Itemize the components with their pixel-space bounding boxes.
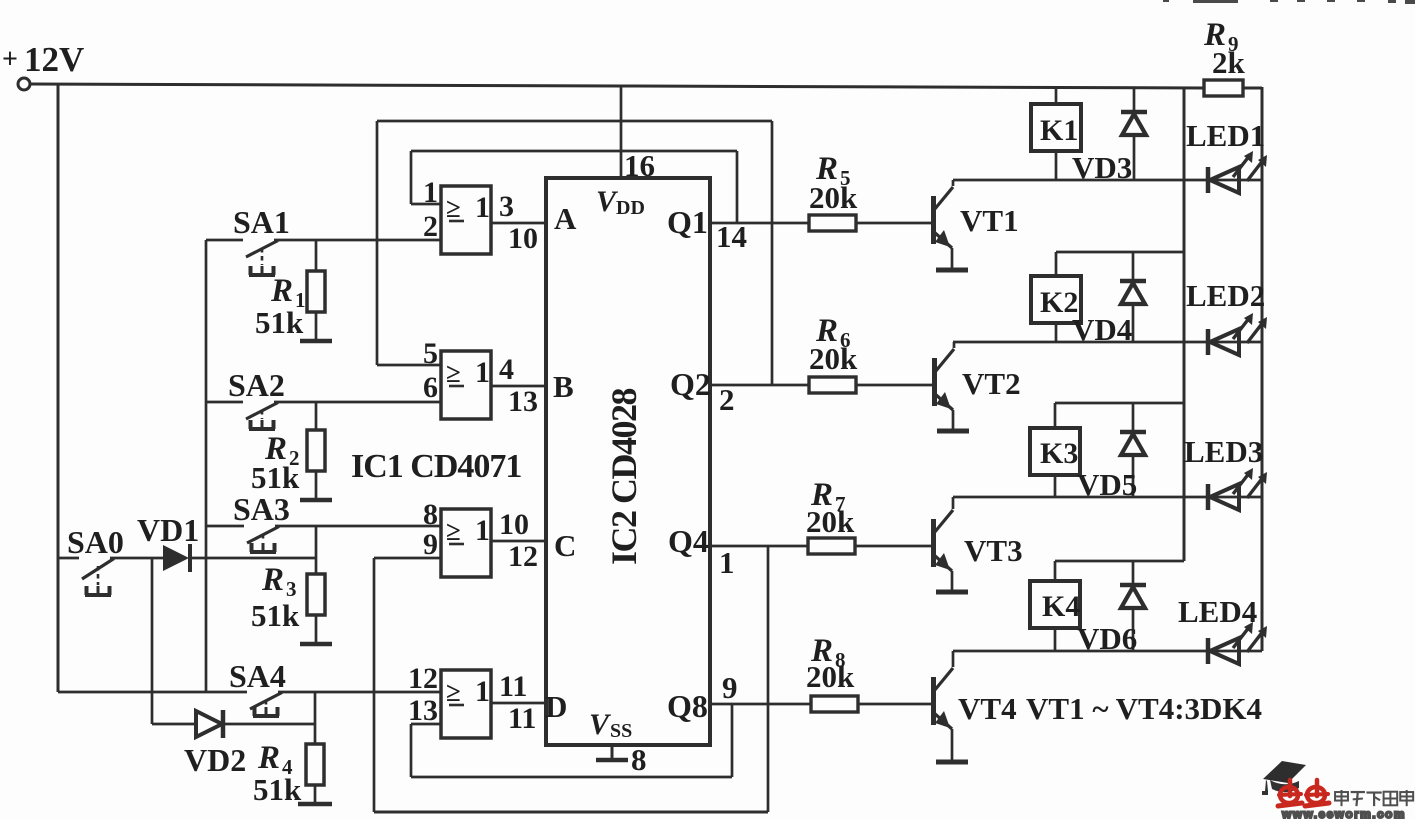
svg-text:VD1: VD1: [137, 512, 199, 548]
svg-text:SS: SS: [610, 720, 632, 742]
svg-text:20k: 20k: [809, 341, 858, 376]
svg-text:1: 1: [475, 514, 490, 547]
svg-text:SA1: SA1: [233, 204, 290, 240]
svg-text:20k: 20k: [806, 504, 855, 539]
svg-text:11: 11: [499, 670, 527, 703]
svg-text:10: 10: [499, 508, 529, 541]
svg-text:5: 5: [423, 337, 438, 370]
svg-text:4: 4: [499, 353, 514, 386]
svg-text:1: 1: [423, 176, 438, 209]
svg-text:13: 13: [508, 385, 538, 418]
svg-text:12V: 12V: [24, 40, 84, 79]
svg-text:LED3: LED3: [1184, 434, 1263, 469]
svg-text:SA2: SA2: [228, 367, 285, 403]
svg-text:51k: 51k: [251, 460, 300, 495]
svg-text:LED4: LED4: [1178, 594, 1257, 629]
svg-text:B: B: [553, 369, 574, 404]
svg-text:V: V: [589, 708, 612, 741]
svg-text:51k: 51k: [253, 772, 302, 807]
svg-text:12: 12: [408, 662, 438, 695]
svg-text:14: 14: [716, 219, 747, 254]
svg-text:SA3: SA3: [233, 491, 290, 527]
svg-text:VT3: VT3: [964, 533, 1023, 568]
svg-text:R: R: [261, 562, 284, 598]
svg-text:VD3: VD3: [1072, 150, 1132, 185]
svg-text:3: 3: [499, 190, 514, 223]
svg-text:≥: ≥: [446, 193, 461, 223]
svg-text:LED2: LED2: [1186, 278, 1265, 313]
svg-text:LED1: LED1: [1186, 118, 1265, 153]
svg-text:9: 9: [722, 670, 738, 705]
svg-text:VD6: VD6: [1077, 621, 1137, 656]
svg-text:IC1 CD4071: IC1 CD4071: [351, 448, 521, 485]
svg-text:Q8: Q8: [667, 688, 708, 724]
svg-text:VD5: VD5: [1077, 467, 1137, 502]
svg-text:VT1 ~ VT4:3DK4: VT1 ~ VT4:3DK4: [1026, 691, 1262, 726]
svg-text:K4: K4: [1042, 590, 1080, 623]
svg-text:C: C: [554, 528, 576, 563]
svg-text:+: +: [2, 44, 18, 75]
svg-text:2k: 2k: [1212, 45, 1246, 80]
svg-text:1: 1: [475, 675, 490, 708]
svg-text:≥: ≥: [446, 358, 461, 388]
svg-text:K1: K1: [1040, 114, 1078, 147]
svg-text:2: 2: [719, 382, 735, 417]
svg-text:A: A: [554, 201, 577, 236]
svg-text:20k: 20k: [809, 180, 858, 215]
svg-text:51k: 51k: [251, 598, 300, 633]
svg-text:VT2: VT2: [962, 366, 1021, 401]
svg-text:R: R: [270, 273, 293, 309]
svg-text:VT4: VT4: [958, 691, 1017, 726]
svg-text:12: 12: [508, 540, 538, 573]
svg-text:11: 11: [508, 702, 536, 735]
svg-text:2: 2: [423, 210, 438, 243]
svg-text:51k: 51k: [255, 305, 304, 340]
svg-text:R: R: [257, 740, 280, 776]
svg-text:6: 6: [423, 371, 438, 404]
svg-text:D: D: [545, 689, 567, 724]
svg-text:SA0: SA0: [67, 524, 124, 560]
svg-text:VT1: VT1: [960, 203, 1019, 238]
svg-text:SA4: SA4: [229, 658, 286, 694]
svg-text:≥: ≥: [446, 516, 461, 546]
svg-text:Q2: Q2: [670, 366, 711, 402]
svg-text:20k: 20k: [806, 659, 855, 694]
svg-text:1: 1: [719, 545, 735, 580]
svg-text:Q4: Q4: [668, 523, 709, 559]
svg-text:VD2: VD2: [184, 742, 246, 778]
svg-text:DD: DD: [616, 197, 645, 219]
svg-text:9: 9: [423, 528, 438, 561]
svg-text:16: 16: [624, 148, 655, 183]
svg-text:K3: K3: [1040, 437, 1078, 470]
svg-text:VD4: VD4: [1072, 312, 1132, 347]
svg-text:IC2 CD4028: IC2 CD4028: [604, 389, 644, 566]
svg-text:10: 10: [508, 222, 538, 255]
svg-text:8: 8: [423, 498, 438, 531]
svg-text:Q1: Q1: [667, 204, 708, 240]
svg-text:≥: ≥: [446, 677, 461, 707]
svg-text:1: 1: [475, 356, 490, 389]
svg-text:8: 8: [631, 742, 647, 777]
svg-text:1: 1: [475, 191, 490, 224]
svg-text:www.eeworm.com: www.eeworm.com: [1281, 807, 1406, 820]
svg-text:13: 13: [408, 694, 438, 727]
